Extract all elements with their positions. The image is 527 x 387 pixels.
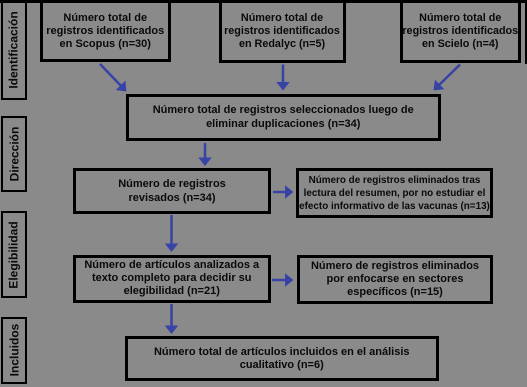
arrow Redalyc to duplicates bbox=[282, 65, 285, 89]
box Scopus bbox=[40, 0, 172, 62]
sidebar label Dirección bbox=[1, 116, 27, 193]
sidebar label Identificación bbox=[1, 0, 27, 100]
box included in qualitative analysis bbox=[125, 336, 439, 381]
arrow Scopus to duplicates bbox=[100, 64, 125, 90]
box full-text analysed bbox=[73, 255, 271, 303]
box Scielo bbox=[400, 0, 522, 63]
top border line bbox=[0, 0, 527, 3]
arrow reviewed to full-text bbox=[170, 215, 173, 250]
sidebar label Incluidos bbox=[1, 317, 27, 385]
box records reviewed bbox=[73, 168, 271, 214]
arrow duplicates to reviewed bbox=[204, 143, 207, 164]
arrow full-text to included bbox=[170, 304, 173, 332]
arrow reviewed to removed-abstract bbox=[273, 191, 292, 194]
box Redalyc bbox=[219, 0, 346, 63]
box duplicates removed bbox=[126, 94, 441, 142]
arrow full-text to removed-sector bbox=[272, 279, 292, 282]
box removed sector-specific bbox=[297, 255, 493, 304]
sidebar label Elegibilidad bbox=[1, 211, 27, 298]
right partial border line bbox=[525, 0, 527, 64]
arrow Scielo to duplicates bbox=[435, 65, 460, 90]
box removed after abstract reading bbox=[296, 168, 493, 218]
